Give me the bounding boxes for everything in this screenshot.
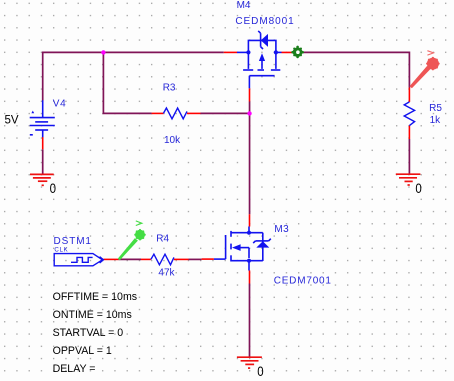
pin stub R4 left bbox=[141, 258, 151, 260]
svg-text:47k: 47k bbox=[158, 268, 175, 279]
svg-text:0: 0 bbox=[50, 180, 57, 196]
svg-text:STARTVAL = 0: STARTVAL = 0 bbox=[53, 327, 124, 339]
pin stub R3 left bbox=[152, 112, 164, 114]
voltage source V4 bbox=[30, 100, 55, 137]
wire V4 minus to ground bbox=[42, 149, 44, 174]
resistor R5 bbox=[404, 102, 414, 126]
svg-text:0: 0 bbox=[415, 180, 422, 196]
svg-text:CEDM7001: CEDM7001 bbox=[274, 276, 332, 287]
pin stub M3 gate bbox=[202, 258, 214, 260]
current marker (green) on M4 drain bbox=[291, 46, 304, 59]
pin stub R5 bottom bbox=[408, 126, 410, 139]
transistor M4 CEDM8001 bbox=[237, 31, 282, 88]
pin stub R5 top bbox=[408, 88, 410, 102]
wire M3 source to ground bbox=[249, 284, 251, 358]
digital stimulus DSTM1 bbox=[54, 254, 103, 266]
svg-text:DELAY =: DELAY = bbox=[53, 363, 96, 375]
wire R4 to M3 gate bbox=[189, 258, 202, 260]
svg-text:DSTM1: DSTM1 bbox=[54, 236, 92, 247]
pin stub M3 drain bbox=[249, 214, 251, 226]
svg-text:10k: 10k bbox=[164, 135, 181, 146]
wire R5 bottom to ground bbox=[408, 139, 410, 174]
M3 source dot bbox=[247, 259, 251, 263]
M3 drain dot bbox=[247, 231, 251, 235]
M3 body diode triangle bbox=[256, 241, 269, 247]
svg-text:OPPVAL = 1: OPPVAL = 1 bbox=[53, 345, 112, 357]
pin stub M4 gate bbox=[249, 88, 251, 101]
node B junction bbox=[247, 111, 251, 115]
svg-text:CLK: CLK bbox=[54, 247, 68, 254]
pin stub M4 drain right bbox=[282, 51, 298, 53]
svg-text:M4: M4 bbox=[237, 0, 251, 11]
transistor M3 CEDM7001 bbox=[214, 227, 271, 271]
M4 source dot bbox=[246, 50, 250, 54]
pin stub M4 source left bbox=[224, 51, 237, 53]
svg-text:1k: 1k bbox=[430, 115, 442, 126]
voltage probe (red) on R5 top bbox=[410, 66, 431, 88]
svg-text:5V: 5V bbox=[5, 114, 19, 126]
svg-text:OFFTIME = 10ms: OFFTIME = 10ms bbox=[53, 291, 137, 303]
pin stub M3 source bbox=[249, 271, 251, 284]
svg-text:M3: M3 bbox=[274, 224, 289, 235]
svg-text:V4: V4 bbox=[53, 98, 67, 109]
svg-text:CEDM8001: CEDM8001 bbox=[235, 16, 294, 27]
pin stub R4 right bbox=[174, 258, 189, 260]
wire branch from node A down to R3 bbox=[103, 52, 151, 113]
M4 body diode triangle bbox=[261, 34, 268, 47]
wire R3 right to node B bbox=[201, 112, 250, 114]
voltage probe (green) on DSTM1 output bbox=[118, 221, 142, 260]
pin stub R3 right bbox=[187, 112, 201, 114]
svg-text:R4: R4 bbox=[156, 233, 169, 244]
ground 0 under R5 bbox=[396, 174, 421, 185]
wire net1 top: V4 plus up and across to M4 bbox=[43, 52, 224, 100]
resistor R3 bbox=[163, 108, 187, 119]
svg-text:ONTIME = 10ms: ONTIME = 10ms bbox=[53, 309, 132, 321]
resistor R4 bbox=[151, 254, 174, 265]
svg-text:0: 0 bbox=[257, 363, 264, 379]
V4 plus mark bbox=[31, 111, 34, 114]
M4 drain dot bbox=[274, 50, 278, 54]
ground 0 under V4 bbox=[30, 174, 54, 185]
wire DSTM1 output to R4 bbox=[118, 258, 141, 260]
pin stub DSTM1 out bbox=[104, 258, 119, 260]
pin stub V4 bottom bbox=[42, 137, 44, 149]
wire M4 drain to R5 top bbox=[298, 52, 410, 87]
M4 body arrow bbox=[259, 53, 265, 61]
node A junction bbox=[101, 50, 105, 54]
wire M4 gate down through node B to M3 drain bbox=[249, 102, 251, 215]
M3 body arrow head bbox=[232, 244, 241, 251]
svg-text:R5: R5 bbox=[429, 103, 442, 114]
ground 0 under M3 bbox=[237, 357, 262, 368]
svg-text:R3: R3 bbox=[163, 83, 176, 94]
